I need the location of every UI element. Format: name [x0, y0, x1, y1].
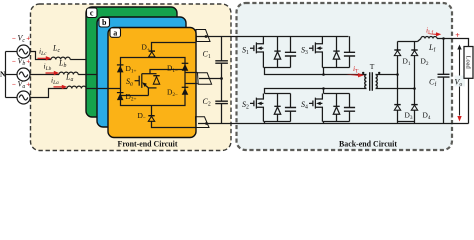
merge trapezoid mid	[198, 73, 212, 84]
Vo measure line	[459, 47, 461, 116]
svg-text:b: b	[102, 18, 107, 27]
svg-text:−: −	[12, 81, 16, 89]
mid exit wire	[199, 78, 222, 80]
switch cell S2	[250, 94, 296, 122]
rectifier right leg	[414, 42, 416, 122]
Vo arrowhead up	[457, 45, 461, 50]
diode D2	[411, 50, 417, 56]
svg-text:c: c	[90, 9, 94, 18]
inductor Lf	[421, 37, 437, 39]
wire phase c to box	[70, 59, 86, 61]
svg-text:+: +	[455, 31, 460, 40]
current arrow iLa	[54, 85, 68, 89]
front-end dashed enclosure	[31, 4, 232, 151]
top dc rail from merge	[196, 36, 349, 38]
junction dot Cf top	[442, 37, 445, 40]
phase module box c (green, back)	[86, 7, 177, 117]
source Vb circle	[17, 68, 30, 81]
secondary bottom wire	[376, 88, 415, 90]
source Va circle	[17, 91, 30, 104]
wire phase b to box	[78, 74, 97, 76]
capacitor C2 plates	[215, 101, 228, 103]
rectifier top rail	[398, 41, 418, 43]
junction dot A-S3	[322, 73, 325, 76]
junction dot mid rail	[220, 77, 223, 80]
capacitor C1 plates	[215, 61, 228, 63]
back-end dashed enclosure	[237, 3, 453, 150]
switch cell S4	[309, 94, 355, 122]
diode D1	[394, 50, 400, 56]
cap branch between	[221, 63, 223, 101]
cap branch C1 upper	[221, 37, 223, 61]
wire N to Va	[6, 97, 18, 99]
wire phase a	[30, 89, 67, 98]
rectifier bottom rail	[398, 121, 415, 123]
capacitor Cf plates	[438, 74, 450, 77]
phase module box a (yellow, front)	[108, 28, 196, 138]
bridge rectangle	[121, 58, 186, 106]
svg-text:a: a	[113, 29, 117, 38]
wire node B lower	[265, 89, 367, 94]
junction dot top rail	[205, 35, 208, 38]
label chip c	[87, 8, 98, 18]
polarity dot secondary	[378, 72, 380, 74]
bottom dc bus	[198, 123, 469, 125]
load bottom wire	[468, 78, 470, 123]
inductor Lb	[59, 72, 78, 74]
svg-text:+: +	[26, 81, 30, 89]
diode D+	[149, 51, 155, 57]
mid stub lower	[185, 83, 198, 85]
transformer core	[370, 72, 373, 90]
Vo arrowhead down (red)	[457, 116, 461, 122]
svg-text:Load: Load	[464, 56, 471, 70]
mid stub upper	[185, 72, 198, 74]
load box	[464, 47, 473, 79]
rectifier left leg	[397, 42, 399, 122]
wire N to Vb	[6, 74, 18, 76]
Cf branch	[443, 39, 445, 124]
jog to Lf	[418, 39, 422, 42]
label Vo	[455, 76, 466, 87]
merge trapezoid top	[196, 30, 210, 42]
svg-text:−: −	[12, 35, 16, 43]
diode D1-	[182, 63, 189, 71]
wire Lf to load	[437, 39, 469, 47]
D- branch vertical	[152, 106, 197, 128]
polarity dot primary	[362, 72, 364, 74]
svg-text:Front-end Circuit: Front-end Circuit	[118, 139, 178, 148]
svg-text:N: N	[0, 70, 6, 79]
stub to bus left	[397, 122, 399, 124]
switch Sa IGBT	[135, 74, 157, 88]
diode D3	[394, 105, 400, 111]
junction dot B-S4	[322, 87, 325, 90]
transformer secondary winding	[376, 75, 378, 89]
svg-text:+: +	[26, 35, 30, 43]
svg-text:Back-end Circuit: Back-end Circuit	[339, 139, 397, 148]
interior Z wire low	[121, 95, 149, 97]
svg-text:T: T	[370, 62, 375, 71]
interior riser	[148, 70, 185, 96]
junction dot bottom rail	[205, 122, 208, 125]
node N bus wire	[5, 52, 7, 98]
wire phase c	[30, 52, 51, 60]
junction dot secondary bottom	[413, 87, 416, 90]
inductor La	[67, 86, 86, 88]
diode D4	[411, 105, 417, 111]
svg-text:+: +	[26, 58, 30, 66]
wire node A upper	[265, 68, 367, 75]
junction dot secondary top	[396, 73, 399, 76]
stub S3 to upper wire	[323, 68, 325, 75]
wire phase a to box	[86, 88, 120, 90]
current arrow iLb	[46, 71, 60, 75]
phase module box b (blue, middle)	[97, 17, 186, 127]
svg-text:−: −	[12, 58, 16, 66]
cap branch C2 lower	[221, 104, 223, 124]
current arrow iLc	[38, 56, 52, 60]
switch cell S1	[250, 36, 296, 67]
inductor Lc	[51, 57, 70, 59]
Sa antiparallel diode	[153, 76, 159, 85]
wire N to Vc	[6, 51, 18, 53]
stub to bus right	[414, 122, 416, 124]
diode D2-	[182, 87, 189, 95]
label chip b	[99, 18, 110, 28]
diode D-	[148, 116, 154, 122]
stub S4 to lower wire	[323, 89, 325, 94]
current arrow iLf	[427, 32, 442, 36]
current arrow iT	[346, 73, 364, 77]
label chip a	[110, 28, 121, 38]
D+ branch vertical	[152, 43, 197, 58]
diode D2+	[117, 92, 124, 100]
transformer primary winding	[365, 75, 367, 89]
wire phase b	[30, 74, 59, 76]
switch cell S3	[309, 36, 355, 67]
merge trapezoid bottom	[196, 117, 210, 128]
secondary top wire	[376, 74, 398, 76]
diode D1+	[117, 64, 124, 72]
source Vc circle	[17, 45, 30, 58]
